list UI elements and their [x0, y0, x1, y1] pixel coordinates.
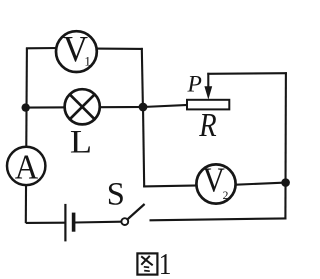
- voltmeter V1: [56, 31, 97, 72]
- wire top-right horizontal: [207, 72, 287, 75]
- svg-text:P: P: [187, 71, 202, 97]
- rheostat R body: [187, 100, 229, 110]
- wire V1 right vertical: [142, 48, 143, 107]
- wire left vertical (top corner to bottom corner): [26, 48, 27, 223]
- ammeter A: [7, 147, 45, 185]
- wire bottom-left horizontal: [26, 222, 66, 224]
- node junction dot middle: [139, 103, 148, 112]
- svg-text:R: R: [198, 106, 216, 144]
- wire battery to switch: [75, 221, 121, 224]
- svg-text:1: 1: [84, 53, 91, 68]
- battery long plate: [64, 204, 66, 242]
- wire right vertical: [284, 72, 287, 219]
- wire V2 branch vertical: [143, 106, 144, 187]
- slider arrowhead of P: [204, 86, 212, 99]
- switch S blade: [127, 204, 144, 219]
- wire switch contact / bottom-right horizontal: [150, 218, 287, 220]
- svg-text:S: S: [107, 177, 125, 213]
- wire row to rheostat: [143, 105, 188, 107]
- lamp L: [65, 89, 100, 124]
- wire V1 top-right horizontal: [94, 48, 143, 50]
- wire V2 row left: [143, 185, 200, 186]
- caption glyph 图 drawn as strokes: [137, 253, 157, 274]
- switch S pivot circle: [121, 218, 128, 225]
- wire slider stem: [207, 73, 209, 88]
- node junction dot right: [281, 178, 290, 187]
- wire V2 row right: [233, 183, 286, 185]
- svg-text:1: 1: [159, 248, 172, 279]
- svg-text:2: 2: [223, 190, 229, 202]
- svg-text:L: L: [70, 123, 92, 160]
- wire V1 top-left horizontal: [26, 47, 59, 49]
- node junction dot left: [22, 103, 30, 111]
- voltmeter V2: [196, 164, 235, 203]
- svg-text:A: A: [15, 149, 39, 187]
- battery short thick plate: [72, 213, 76, 232]
- wire main row through lamp: [26, 106, 143, 109]
